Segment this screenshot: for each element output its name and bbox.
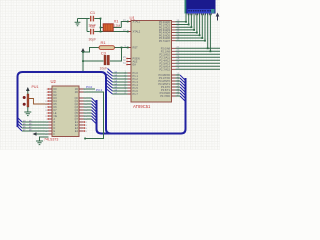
wires U2 right Q0-Q7 — [84, 98, 92, 119]
U1 right pin numbers — [177, 19, 180, 96]
wire U2 right hook A (net label) — [84, 85, 96, 89]
node dots P2 control — [207, 47, 212, 52]
ground (U2) — [36, 141, 43, 145]
bus entries P1.0-P1.7 (blue diagonals to middle bus) — [107, 69, 113, 95]
wires P2.2-P2.7 to right edge — [176, 54, 221, 69]
resistor R1 — [99, 40, 115, 49]
input terminal arrow (U2) — [33, 132, 49, 136]
U1 right pin names P0 — [158, 20, 170, 98]
svg-text:C3: C3 — [101, 50, 107, 55]
wire cap left vertical — [86, 19, 88, 32]
U2 pin end dots (unconnected) — [48, 88, 86, 131]
wire XTAL1 net (crystal right up to pin) — [121, 22, 128, 28]
node R1/C3 junction — [121, 47, 123, 49]
svg-text:XTAL1: XTAL1 — [133, 20, 141, 24]
U1 left pin names — [133, 20, 141, 97]
svg-text:P3.0: P3.0 — [86, 85, 93, 89]
wire XTAL2 net (bottom, C2 to pin) — [94, 31, 128, 33]
svg-text:P3.7/RD: P3.7/RD — [160, 94, 170, 98]
bus entries U2 right — [92, 98, 97, 124]
crystal X1 — [101, 18, 122, 31]
U1 right pin stubs — [172, 22, 176, 96]
wire U2 gnd pin — [40, 137, 49, 141]
svg-text:U2: U2 — [51, 79, 57, 84]
capacitor C1 — [87, 10, 101, 28]
net labels U2 left wires — [23, 121, 32, 132]
wire sounder to U2 — [29, 99, 49, 105]
wires P0.0-P0.7 to LCD data pins (staircase) — [176, 14, 206, 41]
bus entries P3.0-P3.7 (blue diagonals to right bus) — [180, 75, 186, 102]
wires P2.0/P2.1 to LCD control pins — [176, 14, 221, 52]
svg-text:RST: RST — [133, 46, 139, 50]
net labels P1 wires — [115, 72, 118, 95]
U2 right pin stubs — [79, 89, 84, 131]
U1 pin end dots (unconnected) — [126, 58, 127, 65]
power terminal +5V (reset net) — [81, 48, 85, 52]
wire crystal left drop — [100, 19, 102, 32]
wires P3.0-P3.7 — [176, 75, 181, 96]
wire gnd to caps — [78, 18, 88, 20]
node crystal-left junctions — [100, 18, 102, 20]
U2 left pin stubs — [49, 89, 53, 134]
svg-text:P3.1: P3.1 — [96, 88, 103, 92]
node XTAL pin dots — [127, 21, 129, 23]
IC U2 latch — [44, 79, 79, 142]
svg-text:EA: EA — [133, 63, 137, 67]
background grid — [0, 0, 220, 150]
svg-text:2D: 2D — [75, 91, 78, 94]
U2 pin numbers — [45, 89, 48, 136]
svg-text:P0.7/AD7: P0.7/AD7 — [159, 39, 171, 43]
wire C3 left — [83, 60, 104, 62]
wire C3 right riser — [110, 48, 122, 62]
svg-text:10uF: 10uF — [100, 66, 108, 70]
node RST pin dot — [127, 47, 129, 49]
wire reset vertical branch — [82, 52, 84, 72]
svg-text:P2.7/A15: P2.7/A15 — [159, 67, 170, 71]
LCD pin stubs — [186, 14, 211, 16]
node dots on staircase — [185, 21, 206, 42]
capacitor C2 — [87, 24, 101, 42]
bus entries U2 left (from left bus) — [18, 118, 23, 132]
U1 left pin numbers — [123, 19, 127, 95]
LCD module LM016L — [185, 0, 216, 14]
wire U2 right hook B down the side — [84, 88, 104, 139]
svg-text:PU1: PU1 — [32, 85, 39, 89]
svg-text:R1: R1 — [101, 40, 107, 45]
svg-text:AT89C51: AT89C51 — [133, 104, 151, 109]
svg-text:30pF: 30pF — [89, 38, 97, 42]
power terminal (LCD vdd arrow) — [216, 13, 220, 21]
bus main loop (top / left / middle vertical / bottom / right vertical) — [18, 72, 186, 134]
wire R1 right to RST pin — [115, 47, 129, 49]
svg-text:12M: 12M — [114, 24, 121, 28]
U1 left pin stubs — [128, 22, 132, 95]
svg-text:XTAL2: XTAL2 — [133, 30, 141, 34]
svg-text:74LS373: 74LS373 — [44, 138, 58, 142]
IC U1 AT89C51 — [130, 15, 172, 108]
ground (sounder) — [24, 112, 31, 116]
ground (crystal caps) — [75, 19, 81, 26]
wire to R1 left — [83, 48, 99, 53]
U2 pin names — [54, 88, 58, 136]
wires P1.0-P1.7 — [113, 73, 128, 94]
wires U2 left data — [22, 122, 49, 131]
capacitor C3 (electrolytic) — [100, 50, 110, 70]
svg-text:C1: C1 — [90, 10, 96, 15]
svg-text:P1.7: P1.7 — [133, 92, 139, 96]
wire sounder to ground — [27, 107, 29, 112]
sounder LS1 — [23, 85, 39, 107]
svg-text:X1: X1 — [114, 18, 120, 23]
node reset branch dots — [82, 51, 84, 53]
bus U2-right vertical — [97, 100, 112, 134]
svg-text:C2: C2 — [90, 24, 96, 29]
